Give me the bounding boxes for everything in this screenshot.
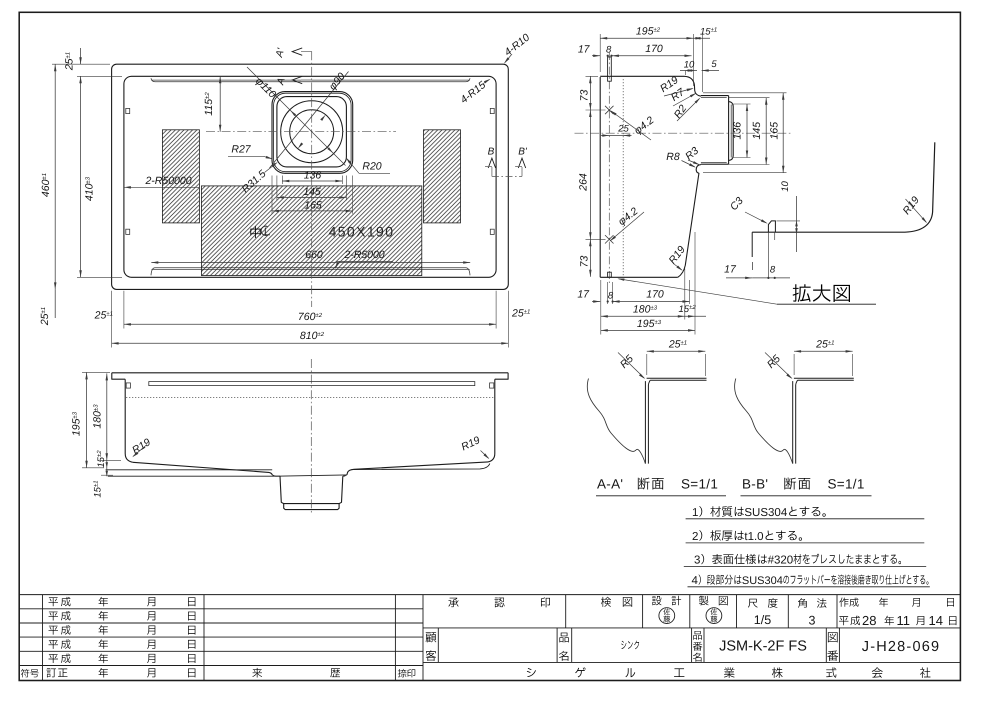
corner detail A-A: 25 dimension xyxy=(647,350,706,352)
dimension 15 rim width top xyxy=(701,34,703,92)
dimension 460 left xyxy=(52,63,110,65)
section bottom flat bar xyxy=(608,272,612,277)
elevation right wall with R19 corner xyxy=(488,379,495,462)
dimension 17 detail xyxy=(726,277,752,279)
elevation drain boss lip xyxy=(284,504,339,510)
elevation bottom edge line right xyxy=(352,464,490,470)
dimension 810 bottom xyxy=(111,291,113,348)
svg-text:S=1/1: S=1/1 xyxy=(681,477,718,492)
title block revision row texts xyxy=(49,597,58,606)
dimension 136 boss xyxy=(733,103,750,105)
section arrow B-prime xyxy=(518,158,525,168)
svg-text:10: 10 xyxy=(780,181,791,192)
svg-text:2-R50000: 2-R50000 xyxy=(144,175,191,187)
scale cell shakudo 1/5 xyxy=(787,595,789,628)
svg-text:264: 264 xyxy=(578,173,590,192)
svg-text:165: 165 xyxy=(304,200,322,212)
corner detail A-A: freehand break line xyxy=(587,379,645,464)
dimension phi110 diagonal leader xyxy=(247,67,346,166)
elevation left flange edge xyxy=(112,373,125,379)
svg-text:170: 170 xyxy=(645,43,663,55)
kakudaizu label xyxy=(793,284,811,302)
dimension 145 boss xyxy=(729,97,770,99)
approval box xyxy=(565,595,567,628)
svg-text:10: 10 xyxy=(684,60,695,71)
elevation hidden water line dotted xyxy=(126,397,495,399)
title block bottom row labels xyxy=(21,669,30,678)
elevation left wall with R19 corner xyxy=(125,379,133,462)
section dotted line step depth xyxy=(622,79,624,277)
svg-text:136: 136 xyxy=(732,122,744,140)
section line B-B dash-dot xyxy=(492,175,522,177)
elevation flat bar end marks xyxy=(126,383,130,388)
section outline: bottom wall (left vertical) xyxy=(599,77,601,277)
side flat bar marks on basin walls xyxy=(126,108,130,113)
created date cell xyxy=(839,598,848,607)
phi4.2 hole marks on centerline xyxy=(605,106,614,114)
customer cell kokyaku xyxy=(437,628,439,663)
title block left revision rows xyxy=(19,608,423,610)
enlarged detail rim profile main line with R19 up-turn xyxy=(752,142,935,232)
corner detail B-B: rim angle profile xyxy=(792,381,794,464)
section rim upper ledge double line xyxy=(701,95,729,97)
dimension 115 from rim to drain center xyxy=(219,76,221,131)
enlarged detail left wall stub xyxy=(751,232,753,257)
section drain boss step xyxy=(728,96,730,165)
svg-text:R27: R27 xyxy=(231,144,251,156)
dimension 15 (bowl drop) elevation xyxy=(106,460,108,476)
svg-text:R20: R20 xyxy=(362,161,381,173)
section arrow A-prime xyxy=(292,48,302,55)
label center mark xyxy=(250,226,260,238)
dimension 17 bottom of section xyxy=(592,301,600,303)
svg-text:73: 73 xyxy=(579,256,591,268)
section outline: top wall with rim R19 hook xyxy=(600,76,701,96)
svg-text:2: 2 xyxy=(692,531,698,543)
section line A-A vertical centerline xyxy=(311,51,313,307)
svg-text:#320: #320 xyxy=(768,554,794,566)
dimension 145 under drain xyxy=(276,176,278,201)
svg-text:B-B': B-B' xyxy=(742,477,768,492)
dimension 165 boss xyxy=(703,92,787,94)
svg-text:165: 165 xyxy=(769,122,781,140)
svg-text:3: 3 xyxy=(809,614,816,628)
dimension 25 bottom-left margin xyxy=(54,289,56,318)
svg-text:B': B' xyxy=(518,147,528,158)
dimension 10 rim xyxy=(680,70,697,72)
drain recess inner rounded square 145 xyxy=(277,97,347,167)
svg-text:17: 17 xyxy=(724,264,737,276)
svg-text:R8: R8 xyxy=(666,151,680,163)
corner detail B-B: freehand break line xyxy=(735,379,793,464)
dimension 25 top-left margin xyxy=(80,48,82,64)
part number cell hinban: JSM-K-2F FS xyxy=(691,628,693,663)
svg-text:170: 170 xyxy=(646,289,664,301)
dimension 73 upper xyxy=(586,75,599,77)
dimension 5 rim xyxy=(702,70,719,72)
svg-text:145: 145 xyxy=(303,186,321,198)
dimension 136 under drain xyxy=(281,176,283,185)
dimension 170 top xyxy=(612,55,692,57)
elevation bowl bottom slope left xyxy=(133,462,272,475)
dimension 17 top xyxy=(592,55,600,57)
section rim lower ledge double line xyxy=(701,163,729,165)
dimension 170 bottom xyxy=(613,301,690,303)
elevation step flat bar front view xyxy=(149,382,475,386)
svg-text:17: 17 xyxy=(578,44,591,56)
svg-text:J-H28-069: J-H28-069 xyxy=(862,639,941,655)
right hatched pad xyxy=(424,130,461,223)
left hatched pad xyxy=(162,130,199,223)
svg-text:3: 3 xyxy=(694,554,700,566)
svg-text:8: 8 xyxy=(770,265,776,276)
section horizontal centerline (drain axis) xyxy=(575,132,792,134)
section vertical centerline through flat bars xyxy=(608,52,610,283)
svg-text:4: 4 xyxy=(692,575,699,587)
drain centerline horizontal xyxy=(206,131,396,133)
elevation right flange edge xyxy=(495,373,508,379)
title block right section rows xyxy=(423,627,960,629)
svg-text:1: 1 xyxy=(692,507,698,519)
svg-text:17: 17 xyxy=(577,289,590,301)
dimension 195 elevation xyxy=(82,371,110,373)
section top flat bar xyxy=(608,57,612,81)
dimension 165 under drain xyxy=(271,176,273,214)
drain circle phi110 xyxy=(281,101,343,163)
dimension 10 bar height xyxy=(777,220,801,222)
svg-text:145: 145 xyxy=(751,122,763,140)
dimension 73 lower xyxy=(589,239,591,276)
svg-text:2-R5000: 2-R5000 xyxy=(343,249,384,261)
bottom step flat bar (660 long) xyxy=(151,268,470,276)
plan view inner basin rim (760x410 rounded rect) xyxy=(124,76,496,277)
enlarged detail flat bar with C3 chamfer xyxy=(768,221,775,232)
elevation bowl bottom slope right xyxy=(347,462,488,475)
title block left column lines xyxy=(42,595,44,681)
product name cell hinmei: sink xyxy=(556,628,558,663)
dimension 8 detail xyxy=(767,277,769,279)
elevation center line xyxy=(310,359,312,514)
svg-text:A-A': A-A' xyxy=(597,477,623,492)
section outline: bottom edge (rim side) xyxy=(600,276,678,278)
svg-text:SUS304: SUS304 xyxy=(742,575,783,587)
dimension 15 bottom rim xyxy=(694,232,696,335)
corner detail B-B: 25 dimension xyxy=(794,350,853,352)
check cell kenzu xyxy=(642,595,644,628)
svg-text:73: 73 xyxy=(579,90,591,102)
dimension 195 top of section xyxy=(599,34,601,72)
elevation top surface line xyxy=(112,372,508,374)
elevation lower lip line xyxy=(108,475,280,477)
section arrow B xyxy=(488,158,495,168)
section arrow A xyxy=(292,76,302,83)
drawing number cell zuban: J-H28-069 xyxy=(825,628,827,663)
drain recess outer rounded square 165 xyxy=(272,92,353,174)
svg-text:1/5: 1/5 xyxy=(754,613,771,627)
dimension 410 left xyxy=(77,75,122,77)
svg-text:28: 28 xyxy=(862,613,876,628)
svg-text:136: 136 xyxy=(304,170,322,182)
plan view outer flange (810x460 rounded rect) xyxy=(112,64,509,289)
design cell sekkei with stamp xyxy=(689,595,691,628)
svg-text:SUS304: SUS304 xyxy=(744,507,787,519)
dimension 15 (lip) elevation xyxy=(101,474,113,476)
svg-text:5: 5 xyxy=(711,59,717,70)
svg-text:25: 25 xyxy=(617,124,629,135)
svg-text:8: 8 xyxy=(606,45,612,56)
svg-text:450X190: 450X190 xyxy=(329,224,395,240)
dimension phi90 diagonal leader xyxy=(270,72,349,169)
draft cell seizu with stamp xyxy=(736,595,738,628)
kakudaizu callout leader xyxy=(619,279,778,304)
enlarged detail weld lines below bar xyxy=(767,232,769,278)
title block outer xyxy=(19,594,960,596)
elevation bottom edge line left xyxy=(106,469,273,471)
svg-text:14: 14 xyxy=(929,613,943,628)
svg-text:t1.0: t1.0 xyxy=(744,531,763,543)
section outline: lower rim hook R3 R8 and sloped wall xyxy=(678,165,701,278)
svg-text:B: B xyxy=(488,147,495,158)
dimension 760 bottom xyxy=(123,291,125,329)
svg-text:8: 8 xyxy=(608,291,614,302)
svg-text:11: 11 xyxy=(897,613,911,628)
dimension 180 bottom xyxy=(600,280,602,335)
svg-text:S=1/1: S=1/1 xyxy=(828,477,865,492)
company name row: Shigeru Kogyo KK xyxy=(527,668,536,677)
dimension 195 bottom of section xyxy=(601,329,695,331)
corner detail A-A: rim angle profile xyxy=(644,381,646,464)
dimension 264 middle xyxy=(586,238,606,240)
dimension 180 elevation xyxy=(101,459,121,461)
top step flat bar (660 long) xyxy=(151,78,470,82)
drain circle phi90 xyxy=(290,110,334,154)
svg-text:JSM-K-2F FS: JSM-K-2F FS xyxy=(719,639,807,655)
svg-text:660: 660 xyxy=(305,249,323,261)
center hatched pad 450x190 xyxy=(201,186,421,276)
elevation drain boss xyxy=(272,475,347,476)
projection cell kakuhou 3 xyxy=(836,595,838,628)
